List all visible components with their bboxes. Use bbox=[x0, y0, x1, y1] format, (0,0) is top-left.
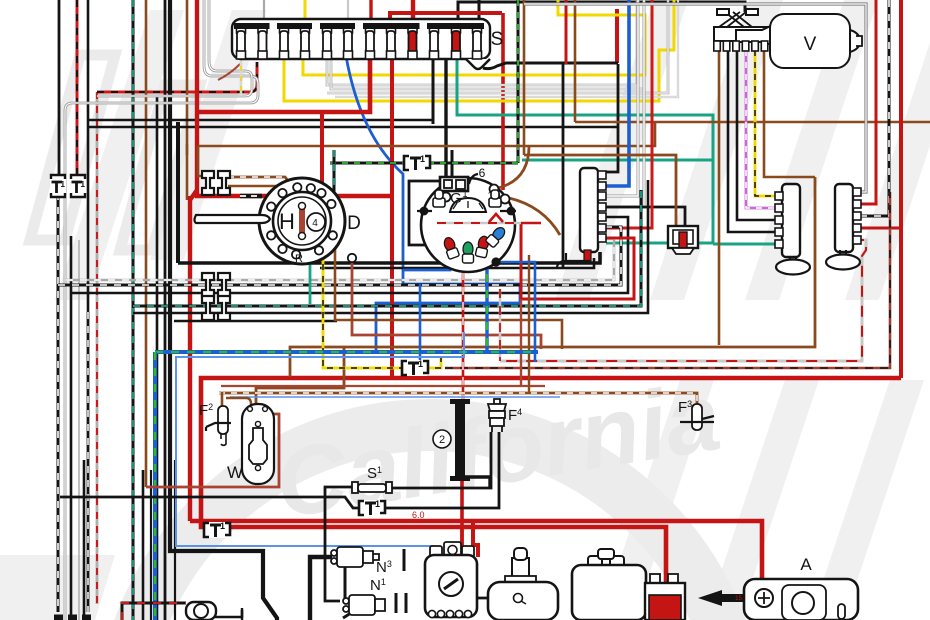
wire yellow fuse top bbox=[304, 0, 307, 24]
wire red coil branch1 bbox=[460, 478, 464, 557]
terminal bars bbox=[396, 549, 406, 613]
wire black thick vert 310 bbox=[310, 557, 332, 620]
wire bluegreen bulb drop bbox=[485, 258, 488, 352]
wire black thick left 11 bbox=[170, 0, 277, 620]
wire brown to H2 bbox=[228, 183, 321, 186]
wire grey loop outer bbox=[65, 0, 258, 620]
wire black y322 bbox=[174, 320, 337, 323]
bar3 foot bbox=[840, 250, 846, 256]
pin circle maroon drop bbox=[348, 254, 356, 262]
wire brown left 7 bbox=[145, 0, 148, 487]
wire maroon W loop bbox=[146, 414, 279, 487]
wire black left 12 bbox=[174, 460, 176, 620]
wire grey-red ign drop bbox=[499, 289, 502, 361]
wire teal left branch bbox=[606, 242, 713, 245]
wire blue snake bbox=[403, 247, 450, 270]
steering/ignition unit D with H4 bbox=[195, 178, 346, 264]
wire yellow-black H drop bbox=[323, 252, 441, 368]
wire blue-green dash main bbox=[155, 350, 538, 354]
wire black drop 452 bbox=[451, 150, 454, 177]
fuse box S bbox=[232, 19, 490, 69]
wire brown wiper 1 bbox=[718, 50, 721, 345]
wire white bundle b bbox=[331, 0, 644, 89]
wire black-teal dashed left 6 bbox=[132, 0, 135, 620]
wire black left 2 bbox=[70, 236, 73, 620]
wire white drop a bbox=[606, 0, 638, 196]
ignition coil bbox=[425, 542, 477, 618]
svg-text:D: D bbox=[347, 213, 361, 234]
wire red-black dash y92 bbox=[97, 62, 257, 92]
svg-text:N3: N3 bbox=[376, 559, 392, 576]
T1 marker y363 bbox=[402, 359, 428, 376]
wire brown curve pin2 bbox=[509, 198, 560, 235]
wire grey left 3b bbox=[78, 240, 80, 620]
wire black left top 1 bbox=[58, 0, 61, 179]
wire red horiz y193 bbox=[190, 112, 392, 521]
wire white bundle d bbox=[335, 0, 678, 97]
T1 marker left a bbox=[50, 175, 66, 197]
wire red nest y299 bbox=[521, 223, 634, 299]
wire brown vert 524 bbox=[523, 0, 526, 155]
wire black y508 bbox=[60, 497, 359, 508]
svg-text:4: 4 bbox=[312, 218, 318, 229]
wire red jog bbox=[190, 190, 197, 200]
injector N3 bbox=[331, 547, 379, 567]
wire blue G drop2 bbox=[419, 284, 422, 362]
wire black-white left 4b bbox=[87, 312, 90, 612]
wire black drop 618 bbox=[606, 64, 618, 172]
wire black horiz y118 bbox=[88, 119, 433, 122]
connector block pair A bbox=[202, 171, 230, 195]
wire red main left drop bbox=[197, 56, 370, 112]
grounding strap bottom left bbox=[186, 602, 242, 620]
wire brown ign drop bbox=[528, 255, 530, 393]
wire black y268 bbox=[320, 258, 594, 268]
svg-text:V: V bbox=[804, 34, 817, 55]
wire brown left 13 bbox=[186, 0, 189, 200]
wire yellow 1 path bbox=[303, 0, 645, 75]
canister bbox=[488, 548, 558, 620]
svg-text:F4: F4 bbox=[508, 407, 522, 424]
wire black thick left 11b bbox=[176, 122, 180, 263]
wire brown H drop2 bbox=[335, 240, 562, 349]
wire black drop 563 bbox=[562, 64, 565, 268]
wire black-green dash vert 522 bbox=[517, 0, 520, 163]
svg-text:G: G bbox=[450, 190, 462, 207]
wire brown wiper 6 bbox=[764, 50, 815, 177]
wire white bundle a bbox=[327, 0, 637, 85]
svg-text:F2: F2 bbox=[199, 402, 213, 419]
wire black-white dashed left 1 bbox=[57, 193, 60, 612]
svg-text:1: 1 bbox=[418, 359, 423, 369]
wire maroon y386 bbox=[221, 385, 545, 387]
svg-text:1: 1 bbox=[220, 521, 225, 531]
G bulbs bbox=[442, 236, 460, 259]
bar2 foot bbox=[790, 257, 796, 261]
connector block pair B bbox=[202, 273, 230, 297]
wire white-yellow drop bbox=[240, 56, 243, 96]
wire black-white dash right bbox=[853, 0, 889, 216]
wire black-teal dash y304 bbox=[133, 190, 641, 306]
wire red-black dash left top bbox=[76, 0, 79, 179]
wire black fuse top bbox=[458, 2, 745, 20]
wire maroon ign drop bbox=[520, 299, 522, 386]
svg-text:F3: F3 bbox=[678, 399, 692, 416]
svg-text:R: R bbox=[295, 253, 303, 265]
wire brown vert 575 bbox=[574, 0, 577, 122]
svg-text:2: 2 bbox=[439, 434, 445, 446]
wire white drop b bbox=[606, 0, 644, 207]
wire brown long y144 bbox=[198, 122, 655, 146]
T1 marker y507 bbox=[359, 499, 385, 516]
wire black-green dash y163 b bbox=[428, 162, 518, 165]
wire yellow 2 path bbox=[284, 0, 674, 101]
wire red right frame bbox=[899, 0, 903, 378]
connector bar T bar 3 bbox=[835, 184, 861, 252]
svg-text:S1: S1 bbox=[367, 465, 382, 482]
wire red y531 bbox=[190, 521, 762, 592]
wire brown y122 right bbox=[575, 121, 930, 124]
wire red-black dashed left 5 bbox=[96, 92, 99, 604]
svg-text:1: 1 bbox=[420, 154, 425, 164]
wire grey right border bbox=[524, 4, 866, 192]
wire red left top bbox=[195, 0, 199, 112]
wire brown loop corner bbox=[198, 146, 206, 176]
wire red fuse top thick bbox=[411, 0, 415, 24]
wire grey-white y283 bbox=[66, 241, 614, 280]
wire brown F2 link bbox=[226, 398, 251, 409]
wire yellow-black wiper 5 bbox=[755, 50, 777, 196]
wire black left 9 bbox=[156, 97, 159, 620]
T1 marker left b bbox=[70, 175, 86, 197]
wire brown-white dash to H bbox=[228, 177, 291, 184]
bottom dashes bbox=[54, 615, 96, 620]
wire black y293 bbox=[71, 217, 628, 293]
wire brown y155 bbox=[186, 144, 189, 155]
wire black left 10 bbox=[164, 0, 167, 620]
washer bottle W bbox=[242, 404, 274, 484]
wire red right 908 bbox=[853, 227, 901, 230]
wire blue ign a bbox=[492, 245, 535, 362]
svg-text:1: 1 bbox=[61, 180, 66, 189]
wire white fuse top bbox=[347, 0, 349, 24]
wire blue main drop bbox=[606, 0, 629, 186]
wire blue thin under bbox=[230, 396, 560, 398]
wire red drop 503 bbox=[501, 13, 505, 190]
wire teal y160 bbox=[522, 159, 713, 162]
wire brown big loop bbox=[290, 177, 815, 377]
wire black left 8b bbox=[150, 470, 152, 620]
connector bar T bar 1 bbox=[580, 168, 606, 252]
wire black-white dash y289 bbox=[58, 227, 621, 285]
svg-text:N1: N1 bbox=[370, 577, 386, 594]
G white bulbs bbox=[433, 190, 501, 207]
arrow to A bbox=[698, 590, 752, 606]
connector block pair C bbox=[202, 296, 230, 320]
wire black S1 to F4 bbox=[388, 432, 491, 488]
wire black-teal H pin bbox=[333, 150, 336, 206]
wire black wiper 4 bbox=[737, 50, 777, 220]
wire black bar2 link bbox=[461, 477, 490, 487]
wire purple-white wiper 3 bbox=[746, 50, 777, 208]
wire blue thin vert bbox=[176, 332, 464, 556]
wire black G left U bbox=[409, 181, 441, 245]
wire black left 4 bbox=[87, 0, 90, 312]
wire black drop 433 bbox=[432, 56, 435, 124]
wire red fuse drop 392 bbox=[390, 56, 394, 378]
wire blue ignition drop bbox=[346, 56, 520, 352]
wire red ign drop bbox=[462, 242, 465, 399]
starter solenoid bbox=[645, 574, 685, 620]
wire black-green dash y163 bbox=[330, 162, 406, 165]
wire brown relay link bbox=[524, 155, 676, 226]
wire black coil out bbox=[477, 597, 512, 600]
T1 marker y532 bbox=[204, 521, 230, 538]
instrument cluster G1 bbox=[421, 177, 515, 272]
wire maroon bar1 bbox=[606, 0, 652, 228]
wire red H pin drop bbox=[320, 112, 324, 191]
svg-text:1: 1 bbox=[81, 180, 86, 189]
small connector with red element bbox=[668, 226, 698, 254]
wire grey fuse top bbox=[263, 0, 265, 24]
svg-text:6.0: 6.0 bbox=[412, 510, 425, 520]
wire grey-red dash loop bbox=[500, 240, 866, 361]
wire red vert 566 bbox=[565, 0, 568, 64]
wire black horiz y124 bbox=[88, 126, 618, 129]
wire black y262 bbox=[178, 252, 600, 263]
svg-text:S: S bbox=[491, 29, 504, 50]
condenser symbol bbox=[514, 594, 523, 603]
svg-text:A: A bbox=[800, 555, 812, 574]
wire white bundle c bbox=[327, 0, 668, 93]
wire black S1 run bbox=[325, 487, 356, 601]
wire maroon curl bbox=[218, 64, 240, 80]
wire maroon H drop1 bbox=[352, 261, 541, 349]
cable bar 2 bbox=[455, 401, 465, 479]
wire teal right branch bbox=[713, 243, 777, 246]
wire grey loop mid bbox=[97, 0, 252, 96]
wire black fuse top2 bbox=[478, 0, 481, 24]
wire brown loop drop2 bbox=[256, 347, 344, 404]
wiper motor V bbox=[714, 9, 862, 68]
wire brown curve pin1 bbox=[498, 146, 529, 188]
wire maroon-black y368 bbox=[445, 192, 890, 368]
wire red coil branch2 bbox=[473, 521, 478, 557]
wire black left 8 bbox=[142, 470, 145, 620]
wire black oval link bbox=[214, 610, 242, 617]
wire brown-white dash F3 bbox=[219, 393, 697, 406]
wire black N x bbox=[343, 606, 362, 618]
wire black left 3b bbox=[83, 460, 86, 620]
wire red right 874 bbox=[853, 0, 876, 204]
wire red fuse top bbox=[369, 0, 372, 24]
wire blue-green dash vert bbox=[153, 352, 157, 620]
wire black drop 445 bbox=[444, 56, 447, 177]
wire fusebox tail bbox=[483, 63, 618, 69]
relay A bbox=[744, 579, 858, 620]
svg-text:6: 6 bbox=[479, 166, 486, 180]
wire teal main bbox=[457, 52, 713, 243]
svg-text:H: H bbox=[279, 209, 295, 234]
wire black y508 b bbox=[383, 432, 499, 508]
regulator box bbox=[572, 549, 646, 620]
svg-text:W: W bbox=[227, 463, 243, 482]
wire red top bus bbox=[390, 13, 502, 22]
wire maroon W left bbox=[221, 392, 224, 406]
wire black box dash top bbox=[122, 603, 186, 620]
T1 marker mid y163 bbox=[404, 154, 430, 171]
connector bar T bar 2 bbox=[775, 184, 800, 257]
wire teal H drop bbox=[309, 258, 312, 304]
wire red coil branch1b bbox=[460, 527, 464, 557]
wire black relay link bbox=[606, 207, 685, 226]
wire black wiper 2 bbox=[728, 50, 777, 232]
svg-text:1: 1 bbox=[462, 189, 467, 199]
wire black N vert bbox=[345, 566, 358, 610]
wire black y309 bbox=[133, 180, 648, 313]
wire red grey link bbox=[521, 222, 541, 225]
wire red top bus b bbox=[615, 9, 619, 63]
wire red big frame bbox=[201, 378, 901, 596]
svg-text:1: 1 bbox=[375, 499, 380, 509]
wire black dash on red bbox=[240, 194, 262, 198]
